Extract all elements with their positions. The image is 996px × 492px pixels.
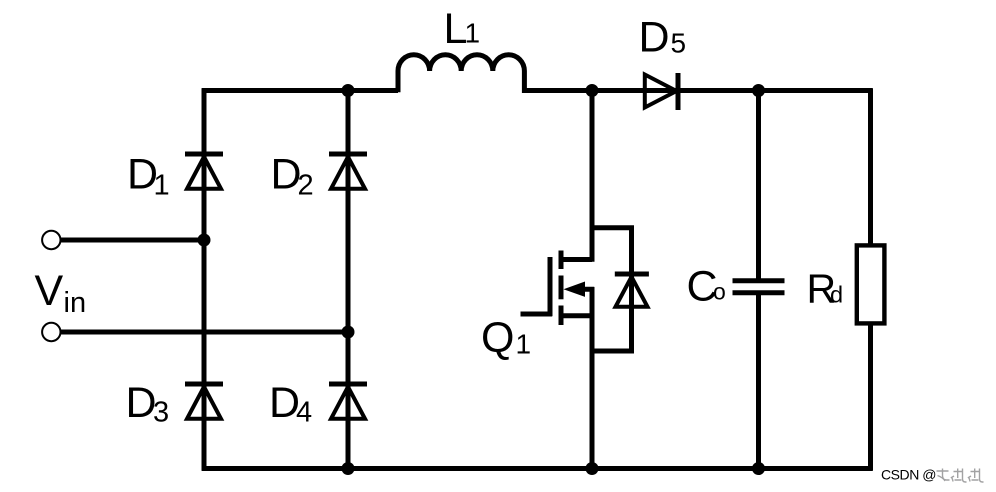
- wire Vin upper lead: [60, 238, 204, 243]
- svg-text:in: in: [64, 287, 87, 319]
- watermark glyph di 1: [952, 469, 967, 483]
- svg-text:V: V: [35, 267, 64, 315]
- wire top rail right: [524, 88, 872, 93]
- wire left bridge branch: [202, 88, 207, 471]
- wire Co branch lower: [756, 293, 761, 471]
- wire Vin lower lead: [60, 330, 348, 335]
- wire Q1 drain vertical: [590, 88, 595, 262]
- svg-text:Q: Q: [481, 314, 514, 362]
- diode D2 bar: [329, 152, 367, 157]
- junction node bottom mid: [342, 462, 355, 475]
- svg-text:5: 5: [671, 28, 687, 59]
- watermark glyph yi: [937, 469, 950, 482]
- terminal Vin lower: [42, 323, 60, 341]
- wire right vertical lower: [868, 324, 873, 471]
- transistor Q1 arrow: [564, 282, 586, 297]
- diode D4 triangle: [331, 387, 365, 419]
- svg-text:o: o: [713, 279, 726, 305]
- diode D3 triangle: [187, 387, 221, 419]
- body diode wire through: [629, 274, 634, 351]
- resistor Rd box: [857, 245, 885, 323]
- wire top rail left: [202, 88, 398, 93]
- junction node bottom Q1: [586, 462, 599, 475]
- wire Co branch upper: [756, 88, 761, 281]
- svg-text:CSDN @: CSDN @: [881, 467, 936, 483]
- transistor Q1 channel top dash: [559, 251, 564, 270]
- watermark glyph di 2: [969, 469, 984, 483]
- junction node bottom Co: [752, 462, 765, 475]
- wire mid bridge branch: [346, 88, 351, 471]
- transistor Q1 gate line: [548, 257, 553, 316]
- transistor Q1 source lead: [561, 313, 592, 318]
- transistor Q1 channel mid dash: [559, 276, 564, 300]
- diode D4 bar: [329, 382, 367, 387]
- diode D5 bar: [676, 73, 681, 110]
- transistor Q1 arrow lead: [578, 287, 594, 292]
- body diode branch bottom: [590, 349, 632, 351]
- inductor L1: [398, 55, 524, 93]
- wire bottom rail: [202, 466, 873, 471]
- svg-text:D: D: [639, 14, 670, 62]
- transistor Q1 channel bottom dash: [559, 306, 564, 326]
- junction node top Q1: [586, 84, 599, 97]
- junction node Vin upper: [198, 234, 211, 247]
- diode D3 bar: [185, 382, 223, 387]
- svg-text:1: 1: [154, 170, 170, 202]
- body diode triangle: [616, 277, 648, 307]
- transistor Q1 gate lead: [521, 312, 553, 317]
- body diode branch top: [590, 228, 632, 274]
- svg-text:1: 1: [465, 18, 481, 49]
- svg-text:1: 1: [516, 329, 532, 360]
- svg-text:4: 4: [296, 397, 312, 429]
- wire right vertical upper: [868, 88, 873, 246]
- svg-text:D: D: [126, 379, 157, 427]
- capacitor Co bottom plate: [733, 290, 785, 295]
- junction node top mid: [342, 84, 355, 97]
- diode D1 triangle: [187, 157, 221, 189]
- diode D1 bar: [185, 152, 223, 157]
- wire Q1 source vertical: [590, 287, 595, 471]
- svg-text:d: d: [830, 282, 843, 308]
- svg-text:3: 3: [153, 397, 169, 429]
- diode D5 triangle: [645, 75, 677, 108]
- body diode bar: [615, 272, 649, 277]
- capacitor Co top plate: [733, 278, 785, 283]
- transistor Q1 drain lead: [561, 257, 592, 262]
- junction node top Co: [752, 84, 765, 97]
- junction node Vin lower: [342, 326, 355, 339]
- terminal Vin upper: [42, 231, 60, 249]
- svg-text:2: 2: [298, 170, 314, 202]
- diode D2 triangle: [331, 157, 365, 189]
